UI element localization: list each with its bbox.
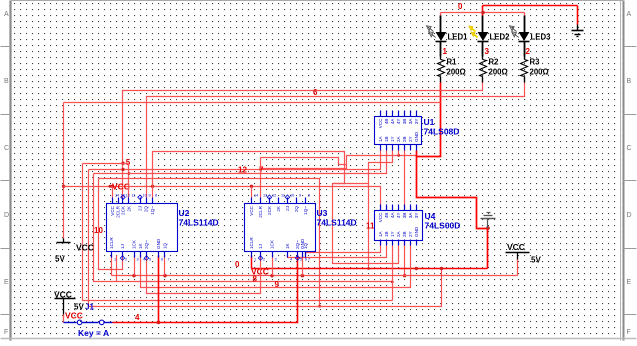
wire net 5 (R1/U1pin7 to U2, light branch) [261,154,417,169]
svg-text:11: 11 [366,222,375,231]
wire VL4 [99,179,123,270]
svg-text:F: F [627,329,631,336]
svg-text:200Ω: 200Ω [489,68,508,77]
wire VCC rail [64,185,381,211]
svg-text:1Y: 1Y [390,231,395,237]
svg-text:U4: U4 [425,211,436,221]
svg-text:C: C [4,145,9,152]
svg-text:A: A [627,11,632,18]
svg-text:3A: 3A [408,118,413,125]
svg-text:D: D [4,212,9,219]
svg-text:1CK: 1CK [270,239,275,249]
svg-text:2K: 2K [127,205,132,212]
svg-text:2A: 2A [396,230,401,237]
svg-text:74LS114D: 74LS114D [317,218,357,228]
svg-text:74LS114D: 74LS114D [179,218,219,228]
svg-text:LED3: LED3 [531,33,552,42]
wire U1 pin4 stub [398,151,400,156]
svg-text:2J: 2J [285,206,290,211]
svg-text:B: B [4,78,9,85]
svg-text:E: E [627,279,632,286]
svg-text:VCC: VCC [378,118,383,128]
svg-text:74LS08D: 74LS08D [424,127,460,137]
svg-text:2: 2 [263,258,265,262]
wire net 3 (R2 to U2) [121,83,482,198]
svg-text:9: 9 [149,194,151,198]
svg-text:VCC: VCC [110,205,115,215]
svg-text:3A: 3A [408,212,413,219]
wire U2pin4 to U4 pin6 [141,246,411,288]
svg-text:2Q: 2Q [294,206,299,213]
svg-text:74LS00D: 74LS00D [425,221,461,231]
svg-text:3B: 3B [402,119,407,125]
wire net 4 bottom [113,256,298,325]
svg-text:4A: 4A [390,118,395,125]
svg-text:1A: 1A [378,230,383,237]
svg-text:8: 8 [308,194,310,198]
svg-text:3: 3 [485,47,490,56]
wire VL3 [94,174,393,282]
svg-text:8: 8 [253,275,258,284]
svg-text:12: 12 [272,194,276,198]
svg-text:4: 4 [135,313,140,322]
svg-text:1CK: 1CK [132,239,137,249]
svg-text:E: E [4,279,9,286]
svg-text:F: F [4,329,8,336]
svg-text:VCC: VCC [507,242,525,252]
svg-text:LED2: LED2 [490,33,511,42]
wire net 1 (R1 to U1 pin7, bright) [417,83,441,157]
wire ground line net 0 [252,256,488,271]
svg-text:4B: 4B [384,213,389,219]
svg-text:U3: U3 [317,208,328,218]
resistor R2 200ohm [480,57,508,83]
svg-text:2CLR: 2CLR [258,205,263,217]
wire U3pin7 to U4 pin1 [306,246,381,256]
svg-text:6: 6 [161,258,163,262]
svg-text:2Y: 2Y [408,231,413,237]
switch J1 Key=A [64,315,113,325]
svg-text:10: 10 [143,194,147,198]
svg-text:Key = A: Key = A [78,328,109,338]
svg-text:10: 10 [290,194,294,198]
svg-text:1Q~: 1Q~ [150,206,155,215]
svg-text:1CLR: 1CLR [109,237,114,249]
wire U3pin5 to U4 pin2 [288,246,387,258]
svg-text:7: 7 [168,258,170,262]
wire U1 VCC feed [153,152,369,187]
svg-text:3: 3 [275,258,277,262]
svg-text:1J: 1J [120,244,125,249]
svg-text:1K: 1K [138,242,143,249]
svg-text:2B: 2B [402,136,407,142]
svg-text:1J: 1J [258,244,263,249]
svg-text:4: 4 [143,258,145,262]
wire x332 down to U4 pin4 [333,184,399,264]
IC U3 74LS114D [245,194,316,262]
wire U4 pin3 riser [392,246,394,301]
wire VCC right drop [517,260,519,276]
svg-text:4A: 4A [390,212,395,219]
svg-text:GND: GND [156,238,161,249]
svg-text:J1: J1 [85,303,94,312]
svg-text:4Y: 4Y [396,119,401,125]
wire U1 pin5 long drop [403,151,406,278]
svg-text:2B: 2B [402,231,407,237]
svg-text:GND: GND [414,131,419,142]
svg-text:2Q: 2Q [144,206,149,213]
svg-text:R3: R3 [530,58,541,67]
svg-text:VCC: VCC [65,311,83,321]
wire VL2 [89,170,442,307]
svg-text:13: 13 [263,194,267,198]
IC U1 74LS08D [375,111,422,151]
svg-text:1: 1 [254,258,256,262]
LED LED2 [469,16,511,57]
svg-text:VCC: VCC [249,205,254,215]
ground mid right [481,213,496,229]
svg-text:B: B [627,78,632,85]
ground top right [572,25,584,37]
svg-text:VCC: VCC [378,212,383,222]
svg-text:1Y: 1Y [390,136,395,142]
svg-text:14: 14 [115,194,119,198]
LED LED1 [427,16,469,57]
svg-text:14: 14 [254,194,258,198]
wire net 2 (R3 to U2) [147,83,525,198]
svg-text:11: 11 [281,194,285,198]
svg-text:6: 6 [305,258,307,262]
wire net 12/7 line (to U1 pin1) [89,151,381,171]
svg-text:9: 9 [299,194,301,198]
svg-text:5V: 5V [531,256,541,265]
svg-text:VCC: VCC [76,243,94,253]
VCC power symbol bottom-left (5V, J1) [54,290,84,315]
svg-text:2CK: 2CK [267,205,272,215]
svg-text:7: 7 [308,258,310,262]
svg-text:D: D [627,212,632,219]
svg-text:5: 5 [300,258,302,262]
wire U1 pin3 path down [369,151,393,269]
svg-text:2Q~: 2Q~ [144,240,149,249]
wire U3 pin2 riser with jog [261,158,347,198]
wire net B1 (left pair to U2 top) [83,164,131,198]
svg-text:0: 0 [458,2,463,11]
svg-text:U2: U2 [179,208,190,218]
svg-text:3Y: 3Y [414,119,419,125]
svg-text:6: 6 [313,88,318,97]
svg-text:0: 0 [235,260,240,269]
svg-text:1Q~: 1Q~ [303,206,308,215]
svg-text:5V: 5V [55,255,65,264]
wire VCC left riser [62,103,441,239]
svg-text:1B: 1B [384,231,389,237]
svg-text:R1: R1 [447,58,458,67]
svg-text:3Y: 3Y [414,213,419,219]
svg-text:LED1: LED1 [448,33,469,42]
svg-text:1B: 1B [384,136,389,142]
svg-text:2Y: 2Y [408,136,413,142]
svg-text:1: 1 [114,258,116,262]
svg-text:1Q: 1Q [303,242,308,249]
wire U2pin? to U4 pin3 [117,256,394,284]
svg-text:A: A [4,11,9,18]
svg-text:1CLR: 1CLR [249,237,254,249]
svg-text:13: 13 [121,194,125,198]
svg-text:3B: 3B [402,213,407,219]
svg-text:2CK: 2CK [121,205,126,215]
resistor R3 200ohm [521,57,549,83]
svg-text:2: 2 [125,258,127,262]
svg-text:200Ω: 200Ω [530,68,549,77]
svg-text:C: C [627,145,632,152]
IC U2 74LS114D [107,194,178,262]
wire net 0 top [441,6,578,25]
svg-text:VCC: VCC [112,182,130,192]
wire U1 pin7 to ground (bright) [417,151,490,269]
svg-text:GND: GND [414,226,419,237]
svg-text:1Q: 1Q [163,242,168,249]
wire VL1 [83,164,393,301]
wire line to U1 pin2 [94,151,387,174]
svg-text:4Y: 4Y [396,213,401,219]
svg-text:1K: 1K [285,242,290,249]
LED LED3 [510,16,552,57]
svg-text:5: 5 [149,258,151,262]
wire line to right (via x=319.6) [99,179,322,308]
wire VCC bottom line [112,256,518,278]
wire U2pin5 to U3 pin2 [147,256,261,294]
svg-text:4: 4 [290,258,292,262]
svg-text:1A: 1A [378,135,383,142]
svg-text:10: 10 [94,226,103,235]
svg-text:VCC: VCC [54,290,72,300]
svg-text:200Ω: 200Ω [447,68,466,77]
svg-text:11: 11 [132,194,136,198]
svg-text:2K: 2K [276,205,281,212]
IC U4 74LS00D [375,205,423,246]
svg-text:1: 1 [443,47,448,56]
svg-text:2A: 2A [396,135,401,142]
svg-text:4B: 4B [384,119,389,125]
svg-text:2: 2 [526,47,531,56]
svg-text:3: 3 [137,258,139,262]
svg-text:12: 12 [126,194,130,198]
svg-text:U1: U1 [424,117,435,127]
svg-text:2J: 2J [138,206,143,211]
resistor R1 200ohm [438,57,466,83]
svg-text:8: 8 [155,194,157,198]
svg-text:R2: R2 [489,58,500,67]
VCC power symbol right (5V) [506,242,542,265]
VCC power symbol left (5V) [55,239,94,264]
